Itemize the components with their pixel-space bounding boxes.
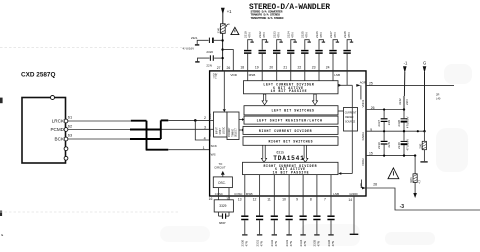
resistor 3343 4.7	[410, 156, 421, 193]
hollow arrow bottom pair 2	[303, 145, 308, 162]
svg-text:RIGHT CURRENT DIVIDER: RIGHT CURRENT DIVIDER	[259, 129, 312, 133]
svg-text:SELECT: SELECT	[236, 127, 238, 137]
scan noise blobs	[160, 64, 472, 246]
power arrow -3 down	[413, 193, 417, 198]
capacitor C2328 top row	[343, 31, 353, 85]
wire LRCK vertical drop thick	[146, 121, 148, 150]
svg-text:3329: 3329	[219, 204, 226, 208]
svg-text:28: 28	[373, 183, 377, 187]
power arrow +1 top left	[221, 8, 232, 24]
net VDD1	[366, 109, 404, 111]
svg-text:47U/16V: 47U/16V	[183, 47, 195, 51]
wire internal divider pin 9	[302, 175, 304, 196]
page edge tick lower	[0, 211, 2, 216]
svg-text:47N: 47N	[274, 241, 278, 247]
svg-text:62: 62	[68, 123, 72, 128]
wire pin27 DB into logic box with arrow	[223, 71, 226, 112]
svg-text:12: 12	[253, 198, 257, 202]
capacitor C2332 bottom row	[267, 196, 278, 247]
block RIGHT BIT SWITCHES	[243, 137, 338, 146]
wire node B to pin 26	[223, 50, 234, 71]
svg-text:47N: 47N	[291, 32, 295, 38]
node A junction	[221, 39, 223, 41]
svg-text:10 BIT PASSIVE: 10 BIT PASSIVE	[271, 89, 307, 93]
svg-text:13: 13	[238, 198, 242, 202]
svg-text:LEFT BIT SWITCHES: LEFT BIT SWITCHES	[272, 109, 314, 113]
svg-text:26: 26	[227, 66, 231, 70]
wire OSC pin16	[218, 188, 220, 200]
svg-text:10 BIT PASSIVE: 10 BIT PASSIVE	[273, 171, 309, 175]
node B junction	[221, 48, 223, 50]
pin circle unlabeled 2	[64, 156, 68, 160]
wire pin 23 internal	[318, 71, 320, 81]
block LEFT BIT SWITCHES	[244, 106, 338, 115]
svg-text:BCK: BCK	[208, 113, 212, 119]
svg-text:WS: WS	[211, 153, 216, 157]
wire LRCK thin	[68, 120, 131, 122]
node C junction	[221, 57, 223, 59]
capacitor C2326 top row	[312, 31, 325, 71]
wire pin 19 internal	[261, 71, 263, 81]
capacitor C2325 top row	[298, 31, 311, 71]
svg-text:9: 9	[296, 198, 298, 202]
wire internal divider pin 13	[244, 175, 246, 196]
wire AOL route	[366, 188, 480, 210]
ground stub GNDD	[350, 233, 359, 235]
svg-text:DATA: DATA	[208, 130, 212, 137]
svg-text:LSB: LSB	[333, 192, 339, 196]
svg-text:47N: 47N	[248, 32, 252, 38]
svg-text:PCMD: PCMD	[50, 127, 64, 132]
label AOR with output arrow	[356, 81, 366, 100]
svg-text:LEFT SHIFT REGISTER/LATCH: LEFT SHIFT REGISTER/LATCH	[257, 119, 322, 123]
svg-text:LRCK: LRCK	[52, 119, 65, 124]
block LEFT CURRENT DIVIDER	[244, 81, 339, 94]
wire PCMD thick run	[130, 129, 161, 131]
svg-text:8: 8	[310, 198, 312, 202]
svg-text:3343: 3343	[410, 177, 413, 183]
capacitor C2333 bottom row	[282, 196, 293, 247]
input logic box right	[227, 112, 239, 140]
svg-text:3: 3	[204, 125, 206, 129]
svg-text:47U/16V: 47U/16V	[405, 139, 409, 151]
label DB/TC	[213, 73, 218, 80]
svg-text:CIRCUIT: CIRCUIT	[214, 165, 226, 169]
svg-text:11: 11	[267, 198, 271, 202]
capacitor 2321 electrolytic	[183, 36, 222, 51]
arrow logic to register latch	[239, 118, 244, 121]
svg-text:GNDD: GNDD	[349, 192, 357, 196]
wire BCK vertical rise thick	[160, 120, 162, 139]
oscillator box OSC	[213, 177, 232, 188]
svg-text:20: 20	[269, 66, 273, 70]
capacitor 2338 47u16V electrolytic	[397, 108, 410, 131]
svg-text:22N: 22N	[387, 120, 391, 126]
svg-text:MSB: MSB	[249, 73, 256, 77]
capacitor 2337 22N	[377, 108, 391, 131]
svg-text:18: 18	[240, 66, 244, 70]
faint text right	[436, 93, 441, 101]
svg-text:47N: 47N	[245, 241, 249, 247]
svg-text:6315: 6315	[276, 150, 284, 154]
svg-text:3342: 3342	[398, 98, 402, 105]
svg-text:LOGIC: LOGIC	[224, 127, 226, 134]
net VDD2	[366, 155, 415, 157]
wire branch to SCK pin 4	[195, 120, 209, 140]
node VDD2 3343 junction	[414, 154, 416, 156]
svg-text:47U/16V: 47U/16V	[405, 117, 409, 129]
block RIGHT CURRENT DIVIDER mid	[243, 126, 338, 134]
svg-text:1: 1	[203, 146, 205, 150]
svg-text:47N: 47N	[347, 32, 351, 38]
svg-text:GNDA: GNDA	[361, 132, 365, 140]
svg-text:G: G	[423, 61, 426, 66]
IC TDA1541 outline	[210, 71, 366, 196]
wire PCMD thin	[68, 129, 130, 131]
power arrow G	[423, 61, 427, 132]
svg-text:61: 61	[68, 115, 72, 120]
svg-text:16: 16	[209, 197, 213, 201]
power arrow +1 right	[403, 60, 408, 109]
pin stub DATA into logic	[210, 128, 214, 130]
svg-text:SHIFT: SHIFT	[220, 127, 222, 134]
svg-text:27: 27	[217, 66, 221, 70]
input logic box left	[214, 112, 228, 137]
warning triangle bottom	[388, 168, 399, 179]
svg-text:15: 15	[369, 152, 373, 156]
wire internal divider pin 7	[330, 175, 332, 196]
svg-text:2340: 2340	[397, 142, 401, 149]
svg-text:2339: 2339	[377, 142, 381, 149]
wire pin 22 internal	[304, 71, 306, 81]
svg-text:3341: 3341	[216, 27, 220, 33]
capacitor C2331 bottom row	[253, 196, 264, 247]
wire BCK thick run	[130, 138, 161, 140]
wire WS thin to pin 1	[168, 149, 209, 151]
net GNDA	[366, 130, 425, 132]
hollow arrow left pair 2	[312, 94, 317, 105]
resonator 3329	[214, 200, 233, 212]
capacitor C2335 bottom row	[310, 196, 321, 247]
svg-text:-3: -3	[400, 204, 405, 210]
svg-text:BCK: BCK	[55, 137, 65, 142]
wire internal divider pin 8	[316, 175, 318, 196]
wire BCK thin	[68, 138, 130, 140]
wire pin 20 internal	[276, 71, 278, 81]
svg-text:23: 23	[312, 66, 316, 70]
svg-text:2321: 2321	[191, 36, 198, 40]
pin BCK 63	[55, 133, 73, 142]
pin stub BCK into logic	[210, 119, 214, 121]
wire pin 24 internal	[332, 71, 334, 81]
label TO CIRCUIT	[214, 162, 226, 177]
capacitor C2327 top row	[326, 31, 339, 71]
wire BCK top thick run	[161, 119, 169, 121]
pin circle top of CXD	[51, 96, 55, 100]
block CURRENT REFERENCE SOURCE	[344, 108, 358, 132]
capacitor C2336 bottom row	[324, 196, 335, 247]
svg-text:REFER.: REFER.	[345, 116, 354, 119]
svg-text:OSC.: OSC.	[218, 181, 226, 185]
svg-text:2320: 2320	[206, 50, 213, 54]
svg-text:+1: +1	[227, 9, 232, 14]
svg-text:47N: 47N	[259, 241, 263, 247]
svg-text:7: 7	[324, 198, 326, 202]
pin PCMD 62	[50, 123, 72, 132]
svg-text:14: 14	[348, 198, 352, 202]
faint fold line lower	[0, 211, 180, 213]
svg-text:24: 24	[326, 66, 330, 70]
faint fold line upper	[0, 47, 186, 49]
node GNDA aux junction	[417, 130, 419, 132]
warning triangle top	[231, 27, 239, 34]
capacitor 2340 47u16V electrolytic	[397, 130, 410, 157]
wire +1 rail down to pin 27	[222, 33, 224, 71]
wire internal divider pin 11	[273, 175, 275, 196]
wire internal into bottom divider	[338, 172, 352, 175]
svg-text:CXD 2587Q: CXD 2587Q	[21, 72, 55, 79]
svg-text:22: 22	[298, 66, 302, 70]
svg-text:LSB: LSB	[334, 73, 340, 77]
pin circle unlabeled 1	[64, 147, 68, 151]
wire pin 18 internal	[247, 71, 249, 81]
block RIGHT CURRENT DIVIDER bottom	[243, 162, 339, 174]
svg-text:TIMING: TIMING	[232, 129, 234, 137]
capacitor C2330 bottom row	[238, 196, 249, 247]
node junction BCK branch	[194, 119, 197, 122]
hollow arrow left pair 1	[262, 94, 267, 105]
svg-text:63: 63	[68, 133, 72, 138]
svg-text:FORMAT: FORMAT	[228, 127, 231, 137]
svg-text:SCK: SCK	[211, 144, 218, 148]
title STEREO-D/A-WANDLER	[249, 4, 330, 20]
svg-text:47N: 47N	[305, 32, 309, 38]
svg-text:47N: 47N	[333, 32, 337, 38]
resistor 3345 on G rail	[420, 131, 427, 162]
arrow logic to right divider	[239, 129, 244, 132]
label AOL with output arrow	[359, 180, 366, 190]
wire internal divider pin 10	[288, 175, 290, 196]
svg-text:2R: 2R	[436, 93, 439, 97]
capacitor C2319 top row	[240, 31, 253, 71]
svg-text:SOURCE: SOURCE	[345, 120, 356, 123]
svg-text:2: 2	[204, 116, 206, 120]
capacitor C2334 bottom row	[296, 196, 307, 247]
svg-text:VDD: VDD	[230, 73, 237, 77]
svg-text:47N: 47N	[277, 32, 281, 38]
svg-text:22N: 22N	[387, 142, 391, 148]
svg-text:47N: 47N	[262, 32, 266, 38]
svg-text:TRADUTTORE D/A STEREO: TRADUTTORE D/A STEREO	[251, 16, 284, 20]
svg-text:INPUT: INPUT	[217, 127, 219, 134]
svg-text:10: 10	[282, 198, 286, 202]
svg-text:2337: 2337	[377, 120, 381, 127]
svg-text:47N: 47N	[319, 32, 323, 38]
wire internal vertical bus	[351, 85, 353, 173]
svg-text:TC: TC	[213, 76, 217, 80]
page edge tick upper	[0, 98, 3, 104]
wire BCK thin to pin 2	[168, 119, 209, 121]
pin LRCK 61	[52, 115, 72, 124]
svg-text:3345: 3345	[420, 143, 422, 149]
svg-text:RIGHT BIT SWITCHES: RIGHT BIT SWITCHES	[269, 140, 313, 144]
svg-text:COSC: COSC	[234, 192, 242, 196]
hollow arrow bottom pair 1	[261, 145, 266, 162]
svg-text:47N: 47N	[289, 241, 293, 247]
wire internal divider pin 12	[259, 175, 261, 196]
svg-text:4: 4	[204, 136, 206, 140]
svg-text:COSC: COSC	[215, 192, 223, 196]
capacitor C2323 top row	[269, 31, 282, 71]
node GNDA G junction	[423, 130, 425, 132]
capacitor 2339 22N	[377, 130, 391, 157]
block LEFT SHIFT REGISTER/LATCH	[244, 116, 338, 124]
svg-text:25: 25	[369, 81, 373, 85]
svg-text:22N: 22N	[206, 64, 212, 68]
wire pin 21 internal	[290, 71, 292, 81]
svg-text:22N: 22N	[405, 99, 409, 105]
svg-text:AOR: AOR	[360, 81, 366, 85]
wire OSC pin17	[228, 188, 230, 200]
svg-text:L40: L40	[436, 97, 441, 101]
IC CXD2587Q outline	[22, 98, 66, 164]
wire GNDD down	[353, 196, 355, 234]
capacitor 680P	[219, 212, 230, 225]
svg-text:VDD2: VDD2	[361, 158, 365, 166]
ferrite bead label on +1 rail	[398, 98, 409, 105]
capacitor C2324 top row	[283, 31, 297, 71]
wire bit switches to current source	[338, 110, 344, 112]
wire internal divider output top	[338, 84, 352, 87]
svg-text:CURRENT: CURRENT	[345, 112, 357, 115]
svg-text:19: 19	[255, 66, 259, 70]
capacitor 2320	[195, 50, 222, 68]
capacitor C2322 top row	[255, 31, 268, 71]
wire DATA thin to pin 3	[161, 128, 210, 130]
svg-text:2338: 2338	[397, 120, 401, 127]
svg-text:680P: 680P	[219, 221, 226, 225]
wire LRCK thick run	[131, 120, 147, 122]
net AOR long line	[366, 84, 454, 86]
svg-text:21: 21	[283, 66, 287, 70]
svg-text:VDD1: VDD1	[361, 99, 365, 107]
resistor 3341	[216, 24, 229, 34]
wire WS thick run	[146, 149, 169, 151]
svg-text:-1: -1	[404, 60, 408, 65]
svg-text:TDA1541: TDA1541	[273, 155, 304, 162]
svg-text:MSB: MSB	[246, 192, 253, 196]
